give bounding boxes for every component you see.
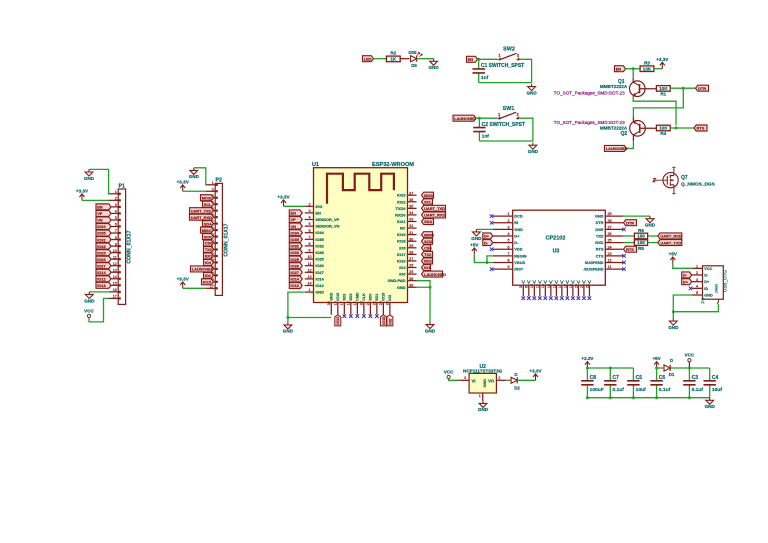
P2 pin 17 bbox=[206, 287, 215, 289]
connector P1 CONN_01X17 bbox=[118, 189, 125, 304]
P1 pin 7 bbox=[109, 232, 118, 234]
U1 bottom pin 38 GND bbox=[330, 303, 332, 315]
U1 right pin 36 IO22 bbox=[408, 201, 417, 203]
U3 left pin 2 RI bbox=[493, 222, 513, 224]
svg-text:P2: P2 bbox=[216, 178, 222, 184]
svg-text:GND: GND bbox=[514, 227, 523, 232]
U1 bottom pin 17 SD2 bbox=[343, 303, 345, 315]
U3 right pin 26 TXD bbox=[605, 235, 623, 237]
svg-text:VI: VI bbox=[472, 378, 476, 383]
svg-text:C5: C5 bbox=[636, 375, 643, 381]
wire Q2 collector to LAUNCHED bbox=[632, 135, 634, 141]
P1 pin 17 bbox=[109, 297, 118, 299]
svg-text:VO: VO bbox=[488, 378, 495, 383]
svg-text:IO4: IO4 bbox=[205, 260, 212, 265]
U1 left pin 13 IO14 bbox=[305, 278, 314, 280]
P1 pin 1 bbox=[109, 193, 118, 195]
svg-text:R5: R5 bbox=[638, 246, 644, 251]
svg-text:SCK: SCK bbox=[204, 234, 212, 239]
svg-text:0.1uf: 0.1uf bbox=[659, 387, 671, 393]
svg-text:SD2: SD2 bbox=[343, 294, 347, 301]
U3 left pin 3 GND bbox=[493, 228, 513, 230]
wire U1 pin1 GND to bottom ground bbox=[288, 292, 331, 317]
wire U1 GND-PAD pin to ground bbox=[417, 281, 431, 288]
svg-text:18: 18 bbox=[563, 284, 567, 288]
P2 pin 7 bbox=[206, 223, 215, 225]
svg-text:11: 11 bbox=[608, 265, 612, 269]
svg-text:C7: C7 bbox=[613, 375, 620, 381]
svg-text:IO0: IO0 bbox=[399, 272, 405, 277]
no-connect U3 pin2 RI bbox=[490, 221, 494, 225]
wire R4 to RTS bbox=[670, 127, 694, 129]
P2 pin 6 bbox=[206, 216, 215, 218]
svg-text:IO34: IO34 bbox=[291, 230, 300, 235]
svg-text:R6: R6 bbox=[638, 228, 644, 233]
U1 right pin 31 IO19 bbox=[408, 234, 417, 236]
ground GND below U1 left bbox=[284, 322, 292, 329]
svg-text:P3: P3 bbox=[701, 297, 706, 303]
U1 left pin 6 IO34 bbox=[305, 232, 314, 234]
svg-text:IO12: IO12 bbox=[315, 283, 324, 288]
no-connect on U1 pin CLK bbox=[362, 314, 366, 318]
wire +3.3V rail bbox=[587, 367, 633, 369]
junction C7 bottom bbox=[609, 396, 612, 399]
net label DTR on U3 pin28 bbox=[624, 220, 637, 226]
U1 bottom pin 21 SD0 bbox=[369, 303, 371, 315]
svg-text:0.1uf: 0.1uf bbox=[613, 387, 625, 393]
svg-text:EN: EN bbox=[616, 66, 622, 71]
U1 right pin 30 IO18 bbox=[408, 240, 417, 242]
P1 pin 2 bbox=[109, 199, 118, 201]
wire U3 RXD to R5 bbox=[623, 242, 634, 244]
U3 bottom pin 21 NC bbox=[583, 285, 585, 296]
svg-text:16: 16 bbox=[113, 288, 117, 292]
svg-text:IO32: IO32 bbox=[291, 244, 300, 249]
junction P3 ground bbox=[672, 310, 675, 313]
wire P1 pin17 to VCC bbox=[89, 298, 109, 322]
P1 pin 12 bbox=[109, 265, 118, 267]
P1 pin 14 bbox=[109, 278, 118, 280]
svg-text:11: 11 bbox=[113, 255, 117, 259]
svg-text:3: 3 bbox=[696, 278, 698, 282]
net label IO25 on U1 pin 10 bbox=[289, 256, 302, 262]
wire Q1 base to R1 bbox=[640, 88, 657, 90]
net label SCL on P2 pin 4 bbox=[203, 201, 214, 207]
svg-text:IO15: IO15 bbox=[382, 293, 386, 301]
wire EN to SW2 pin1 bbox=[478, 58, 498, 60]
svg-text:IO25: IO25 bbox=[291, 257, 300, 262]
wire D2 to +3.3V bbox=[517, 379, 535, 381]
svg-text:RX2: RX2 bbox=[424, 259, 432, 264]
svg-text:VP: VP bbox=[97, 211, 103, 216]
wire junction to GND symbol bbox=[672, 312, 674, 319]
P3 pin 5 GND bbox=[692, 294, 703, 296]
P1 pin 9 bbox=[109, 245, 118, 247]
svg-text:26: 26 bbox=[409, 264, 413, 268]
svg-text:3: 3 bbox=[507, 225, 509, 229]
U3 right pin 12 SUSPEND bbox=[605, 261, 623, 263]
net label EN on P1 pin 3 bbox=[96, 204, 111, 210]
net label SCK on P2 pin 9 bbox=[203, 234, 214, 240]
svg-text:1nf: 1nf bbox=[481, 75, 489, 81]
net label IO35 on P1 pin 7 bbox=[96, 230, 111, 236]
net label IO12 on P1 pin 14 bbox=[96, 276, 111, 282]
svg-text:5: 5 bbox=[696, 291, 698, 295]
svg-text:16: 16 bbox=[552, 284, 556, 288]
U3 bottom pin 19 NC bbox=[572, 285, 574, 296]
U3 left pin 8 VBUS bbox=[493, 261, 513, 263]
wire R2 to D5 bbox=[400, 58, 410, 60]
IC U2 NCP1117ST33T3G regulator bbox=[469, 373, 496, 393]
no-connect U3 bottom pin 13 bbox=[538, 296, 542, 300]
svg-text:2: 2 bbox=[507, 219, 509, 223]
svg-text:IO13: IO13 bbox=[336, 293, 340, 301]
svg-text:GND: GND bbox=[315, 290, 324, 295]
U3 bottom pin 3 NC bbox=[522, 285, 524, 296]
svg-text:MMBT2222A: MMBT2222A bbox=[600, 126, 628, 131]
svg-text:37: 37 bbox=[409, 191, 413, 195]
resistor R6 100 bbox=[634, 233, 647, 239]
svg-text:IO14: IO14 bbox=[291, 277, 300, 282]
U1 left pin 1 GND bbox=[305, 291, 314, 293]
ground GND at U2 pin1 bbox=[479, 401, 487, 408]
svg-text:30: 30 bbox=[409, 237, 413, 241]
antenna meander inside U1 bbox=[327, 174, 394, 204]
svg-text:10uf: 10uf bbox=[712, 387, 722, 393]
diode D2 bbox=[511, 377, 517, 383]
wire P1 pin1 to GND bbox=[89, 169, 109, 193]
U1 bottom pin 24 IO2 bbox=[389, 303, 391, 315]
svg-text:21: 21 bbox=[366, 301, 370, 305]
U3 left pin 1 DCD bbox=[493, 215, 513, 217]
svg-text:SENSOR_VN: SENSOR_VN bbox=[315, 224, 339, 229]
svg-text:GND: GND bbox=[478, 407, 489, 412]
net label IO26 on P1 pin 11 bbox=[96, 256, 111, 262]
svg-text:UART_TXD: UART_TXD bbox=[424, 206, 445, 211]
U1 bottom pin 19 CMD bbox=[356, 303, 358, 315]
svg-text:GND: GND bbox=[330, 292, 334, 301]
U1 right pin 39 GND bbox=[408, 286, 417, 288]
svg-text:LAUNCHED: LAUNCHED bbox=[606, 146, 628, 151]
U3 right pin 25 RXD bbox=[605, 242, 623, 244]
P1 pin 8 bbox=[109, 239, 118, 241]
svg-text:LAUNCHED: LAUNCHED bbox=[192, 267, 214, 272]
net label IO33 on U1 pin 9 bbox=[289, 250, 302, 256]
svg-text:VCC: VCC bbox=[84, 308, 94, 313]
svg-text:22: 22 bbox=[585, 284, 589, 288]
svg-text:CMD: CMD bbox=[356, 292, 360, 301]
svg-text:38: 38 bbox=[409, 277, 413, 281]
svg-text:3: 3 bbox=[308, 209, 310, 213]
svg-text:IO4: IO4 bbox=[399, 265, 406, 270]
ground GND below U1 right bbox=[426, 322, 434, 329]
net label LAUNCHED on U1 pin 25 bbox=[422, 271, 443, 277]
wire U3 GND pin3 to ground bbox=[476, 228, 492, 230]
IC U3 CP2102 USB-UART bbox=[513, 210, 606, 285]
U3 bottom pin 14 NC bbox=[544, 285, 546, 296]
svg-text:15: 15 bbox=[113, 282, 117, 286]
svg-text:+5V: +5V bbox=[652, 356, 661, 361]
junction C5 bottom bbox=[632, 396, 635, 399]
U3 right pin 27 DSR bbox=[605, 228, 623, 230]
svg-text:10K: 10K bbox=[643, 66, 652, 71]
P3 pin 3 D+ bbox=[692, 281, 703, 283]
wire SW2 pin2 to corner bbox=[479, 59, 532, 82]
U2 pin3 VI bbox=[458, 379, 469, 381]
U1 bottom pin 18 SD3 bbox=[350, 303, 352, 315]
no-connect on U1 pin SD0 bbox=[369, 314, 373, 318]
svg-text:2: 2 bbox=[212, 187, 214, 191]
svg-text:D1: D1 bbox=[669, 372, 675, 377]
svg-text:SENSOR_VP: SENSOR_VP bbox=[315, 217, 339, 222]
svg-text:23: 23 bbox=[607, 252, 611, 256]
P2 pin 3 bbox=[206, 197, 215, 199]
svg-text:DCD: DCD bbox=[514, 214, 523, 219]
svg-text:VP: VP bbox=[291, 217, 297, 222]
ground GND at cap bank bbox=[706, 398, 714, 405]
svg-text:18: 18 bbox=[347, 301, 351, 305]
capacitor C8 100uF bbox=[586, 368, 588, 381]
svg-text:28: 28 bbox=[409, 250, 413, 254]
svg-text:+3.3V: +3.3V bbox=[529, 369, 542, 374]
wire VCC rail to C4 bbox=[689, 367, 709, 369]
svg-text:IO21: IO21 bbox=[397, 219, 406, 224]
svg-text:D+: D+ bbox=[704, 280, 710, 284]
svg-text:shield: shield bbox=[715, 284, 719, 293]
svg-text:9: 9 bbox=[115, 242, 117, 246]
svg-text:EN: EN bbox=[468, 57, 474, 62]
ground GND at P3 bbox=[669, 319, 677, 326]
svg-text:GND: GND bbox=[84, 176, 95, 181]
svg-text:R3: R3 bbox=[644, 61, 650, 66]
wire VCC down to rail bbox=[688, 362, 690, 368]
no-connect on U1 pin SD3 bbox=[349, 314, 353, 318]
net label VN on P1 pin 5 bbox=[96, 217, 111, 223]
junction U1 GND wire bbox=[286, 316, 289, 319]
svg-text:ESP32-WROOM: ESP32-WROOM bbox=[372, 162, 414, 168]
net label VN on U1 pin 5 bbox=[289, 223, 302, 229]
wire +5V to D1 bbox=[657, 367, 664, 369]
svg-text:100: 100 bbox=[637, 240, 645, 245]
svg-text:12: 12 bbox=[307, 268, 311, 272]
svg-text:4: 4 bbox=[507, 232, 509, 236]
net label IO2 below U1 bbox=[387, 315, 393, 326]
U3 bottom pin 6 NC bbox=[528, 285, 530, 296]
junction RTS node bbox=[675, 127, 678, 130]
net label RX2 on P2 pin 12 bbox=[204, 253, 214, 259]
P2 pin 16 bbox=[206, 281, 215, 283]
capacitor C4 10uf bbox=[709, 368, 711, 381]
svg-text:Q_NMOS_DGS: Q_NMOS_DGS bbox=[681, 182, 716, 188]
svg-text:IO2: IO2 bbox=[205, 273, 212, 278]
net label UART_TXD on U3 RXD bbox=[658, 240, 682, 246]
svg-text:IO35: IO35 bbox=[315, 237, 324, 242]
svg-text:RTS: RTS bbox=[626, 247, 634, 252]
no-connect U3 bottom pin 10 bbox=[533, 296, 537, 300]
wire EN node down to Q1 collector bbox=[632, 69, 634, 79]
svg-text:D-: D- bbox=[514, 240, 519, 245]
U3 bottom pin 15 NC bbox=[550, 285, 552, 296]
power +5V at U3 REGIN bbox=[472, 248, 477, 254]
svg-text:IO26: IO26 bbox=[97, 257, 106, 262]
svg-text:IO14: IO14 bbox=[315, 276, 324, 281]
svg-text:LED: LED bbox=[364, 56, 372, 61]
svg-text:9: 9 bbox=[308, 249, 310, 253]
wire D1 to VCC node bbox=[671, 367, 690, 369]
svg-text:1: 1 bbox=[696, 264, 698, 268]
net label EN at Q1 bbox=[615, 66, 626, 72]
net label IO15 below U1 bbox=[380, 315, 386, 326]
U3 left pin 9 /RST bbox=[493, 268, 513, 270]
svg-text:+5V: +5V bbox=[470, 243, 479, 248]
svg-text:6: 6 bbox=[308, 229, 310, 233]
svg-text:22: 22 bbox=[373, 301, 377, 305]
svg-text:15: 15 bbox=[547, 284, 551, 288]
P2 pin 2 bbox=[206, 190, 215, 192]
svg-text:VCC: VCC bbox=[444, 369, 454, 374]
svg-text:100: 100 bbox=[637, 234, 645, 239]
svg-text:IO12: IO12 bbox=[97, 276, 106, 281]
svg-text:U1: U1 bbox=[312, 162, 319, 168]
svg-text:EN: EN bbox=[291, 211, 297, 216]
svg-text:10: 10 bbox=[307, 255, 311, 259]
svg-text:13: 13 bbox=[113, 268, 117, 272]
diode D1 bbox=[664, 365, 670, 371]
junction at C1 top bbox=[477, 58, 480, 61]
svg-text:IO34: IO34 bbox=[97, 224, 106, 229]
U3 left pin 7 REGIN bbox=[493, 255, 513, 257]
svg-text:1: 1 bbox=[115, 190, 117, 194]
junction C6 top bbox=[655, 367, 658, 370]
svg-text:VBUS: VBUS bbox=[514, 260, 525, 265]
transistor Q2 MMBT2222A bbox=[630, 121, 646, 137]
svg-text:IO26: IO26 bbox=[291, 263, 300, 268]
svg-text:SDA: SDA bbox=[204, 221, 212, 226]
svg-text:3V3: 3V3 bbox=[315, 204, 323, 209]
svg-text:U3: U3 bbox=[553, 248, 560, 254]
U1 bottom pin 22 SD1 bbox=[376, 303, 378, 315]
no-connect U3 bottom pin 15 bbox=[549, 296, 553, 300]
svg-text:C4: C4 bbox=[712, 375, 719, 381]
net label IO13 on P1 pin 15 bbox=[96, 282, 111, 288]
svg-text:GND: GND bbox=[84, 298, 95, 303]
net label MISO on P2 pin 8 bbox=[201, 227, 214, 233]
net label LAUNCHED at SW1 bbox=[453, 115, 476, 121]
wire U3 TXD to R6 bbox=[623, 235, 634, 237]
junction C3 top bbox=[688, 367, 691, 370]
svg-text:6: 6 bbox=[525, 286, 529, 288]
svg-text:32: 32 bbox=[409, 224, 413, 228]
svg-text:ID: ID bbox=[704, 287, 708, 291]
net label CS0 on P2 pin 10 bbox=[204, 240, 214, 246]
net label RTS bbox=[694, 125, 707, 131]
svg-text:2: 2 bbox=[498, 376, 500, 380]
P2 pin 11 bbox=[206, 249, 215, 251]
U1 left pin 14 IO12 bbox=[305, 285, 314, 287]
svg-text:MOSI: MOSI bbox=[424, 193, 434, 198]
svg-text:IO27: IO27 bbox=[97, 263, 105, 268]
net label D- on U3 pin5 bbox=[483, 240, 493, 246]
svg-text:4: 4 bbox=[115, 210, 117, 214]
net label SDA on P2 pin 7 bbox=[203, 221, 214, 227]
svg-text:+3.3V: +3.3V bbox=[177, 179, 190, 184]
resistor R4 10K bbox=[656, 125, 670, 131]
svg-text:TO_SOT_Packages_SMD:SOT-23: TO_SOT_Packages_SMD:SOT-23 bbox=[554, 120, 625, 125]
no-connect U3 pin6 VDD bbox=[490, 247, 494, 251]
svg-text:35: 35 bbox=[409, 204, 413, 208]
connector P2 CONN_01X17 bbox=[215, 183, 222, 295]
LED D5 bbox=[411, 56, 417, 62]
capacitor C6 0.1uf bbox=[656, 368, 658, 381]
svg-text:CTS: CTS bbox=[596, 253, 604, 258]
wire +3.3V to P2 pin17 bbox=[183, 287, 206, 289]
svg-text:1K: 1K bbox=[390, 57, 397, 62]
no-connect on U1 pin SD2 bbox=[343, 314, 347, 318]
net label UART_RXD on U1 pin 34 bbox=[422, 212, 446, 218]
svg-text:USB_OTG: USB_OTG bbox=[723, 270, 728, 292]
U3 bottom pin 20 NC bbox=[577, 285, 579, 296]
U3 left pin 4 D+ bbox=[493, 235, 513, 237]
no-connect U3 bottom pin 16 bbox=[555, 296, 559, 300]
svg-text:D-: D- bbox=[484, 240, 489, 245]
svg-text:+3.3V: +3.3V bbox=[656, 57, 669, 62]
net label IO35 on U1 pin 7 bbox=[289, 236, 302, 242]
P1 pin 3 bbox=[109, 206, 118, 208]
svg-text:CP2102: CP2102 bbox=[546, 236, 566, 242]
U1 left pin 4 SENSOR_VP bbox=[305, 219, 314, 221]
transistor Q7 Q_NMOS_DGS bbox=[663, 173, 678, 188]
U3 right pin 24 RTS bbox=[605, 248, 623, 250]
svg-text:24: 24 bbox=[386, 301, 390, 305]
U1 right pin 25 IO0 bbox=[408, 273, 417, 275]
svg-text:RXD0: RXD0 bbox=[395, 212, 405, 217]
svg-text:IO25: IO25 bbox=[315, 257, 324, 262]
svg-text:D2: D2 bbox=[514, 386, 520, 391]
U1 left pin 2 3V3 bbox=[305, 205, 314, 207]
net label D+ on P3 pin3 bbox=[682, 279, 692, 285]
net label LAUNCHED at Q2 bbox=[605, 145, 627, 151]
svg-text:SCL: SCL bbox=[204, 202, 212, 207]
P2 pin 8 bbox=[206, 229, 215, 231]
U1 left pin 5 SENSOR_VN bbox=[305, 225, 314, 227]
capacitor C7 0.1uf bbox=[609, 368, 611, 381]
svg-text:C6: C6 bbox=[659, 375, 666, 381]
svg-text:D: D bbox=[514, 372, 517, 377]
U1 right pin 26 IO4 bbox=[408, 267, 417, 269]
svg-text:1: 1 bbox=[308, 288, 310, 292]
net label LAUNCHED on P2 pin 14 bbox=[191, 266, 214, 272]
P1 pin 4 bbox=[109, 212, 118, 214]
net label UART_RXD on U3 TXD bbox=[658, 233, 682, 239]
svg-text:+3.3V: +3.3V bbox=[76, 189, 89, 194]
svg-text:GND: GND bbox=[283, 329, 294, 334]
P2 pin 10 bbox=[206, 242, 215, 244]
svg-text:D05: D05 bbox=[408, 50, 417, 55]
net label IO12 on U1 pin 14 bbox=[289, 283, 302, 289]
U3 bottom pin 10 NC bbox=[533, 285, 535, 296]
net label IO14 on P1 pin 13 bbox=[96, 269, 111, 275]
net label SCL on U1 pin 36 bbox=[422, 199, 433, 205]
no-connect U3 pin23 CTS bbox=[622, 254, 626, 258]
svg-text:/RST: /RST bbox=[514, 267, 523, 272]
wire ground rail bbox=[587, 397, 709, 399]
svg-text:3: 3 bbox=[464, 376, 466, 380]
U1 bottom pin 23 IO15 bbox=[382, 303, 384, 315]
net label RX2 on U1 pin 27 bbox=[422, 258, 433, 264]
svg-text:GND: GND bbox=[482, 379, 487, 388]
svg-text:MMBT2222A: MMBT2222A bbox=[600, 84, 628, 89]
svg-text:IO16: IO16 bbox=[397, 258, 406, 263]
